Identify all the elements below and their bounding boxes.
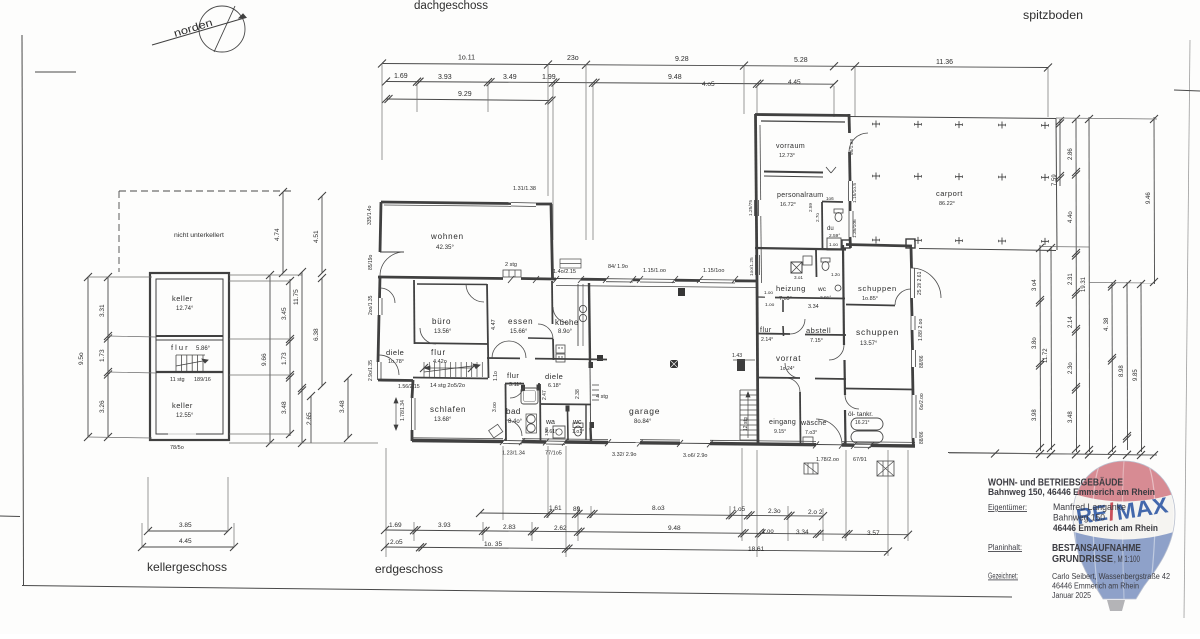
svg-text:3.31: 3.31 (99, 304, 106, 317)
stair flur 14 stg (423, 362, 425, 377)
svg-text:8.o3: 8.o3 (652, 505, 665, 512)
svg-text:du: du (827, 226, 834, 232)
svg-text:1o.11: 1o.11 (458, 55, 475, 62)
kueche sink circles (579, 305, 586, 312)
wall kueche east / garage west (589, 283, 590, 363)
svg-text:2 stg: 2 stg (505, 262, 517, 268)
oil tanks (851, 418, 883, 430)
window schuppen east 1 (910, 268, 912, 298)
svg-text:4.47: 4.47 (491, 319, 497, 330)
svg-text:wa: wa (545, 419, 555, 426)
door arc schuppen east big (911, 268, 941, 298)
svg-text:1.99: 1.99 (542, 74, 556, 81)
svg-text:bad: bad (506, 407, 521, 416)
svg-text:1.oo: 1.oo (762, 529, 774, 535)
svg-text:wohnen: wohnen (430, 232, 464, 241)
wall wohnen south / essen north (378, 277, 503, 279)
svg-text:2.59: 2.59 (808, 203, 813, 212)
svg-text:7.o3°: 7.o3° (805, 430, 817, 436)
svg-text:3.26: 3.26 (99, 400, 106, 413)
door arc essen-kueche (538, 324, 553, 339)
schlafen furniture (489, 424, 503, 438)
wall schuppen divider (846, 305, 895, 306)
svg-text:eingang: eingang (769, 419, 796, 426)
svg-text:schuppen: schuppen (858, 284, 897, 293)
svg-text:77/1o5: 77/1o5 (545, 451, 562, 457)
svg-text:BESTANSAUFNAHME: BESTANSAUFNAHME (1052, 543, 1141, 554)
svg-text:1.73: 1.73 (281, 352, 288, 365)
keller stair arrow (176, 360, 208, 366)
carport post marks (873, 123, 880, 125)
wall bad west (505, 384, 508, 441)
svg-text:9.66: 9.66 (261, 353, 268, 366)
svg-text:1.61: 1.61 (549, 505, 562, 512)
wall vorrat south (757, 377, 800, 380)
keller door gap (168, 433, 196, 435)
right chains bottom connector (949, 453, 1157, 455)
washer wa (553, 426, 565, 438)
svg-text:3.57: 3.57 (867, 530, 880, 537)
svg-text:1.15/1o.5: 1.15/1o.5 (852, 183, 858, 203)
svg-text:2.65: 2.65 (306, 412, 313, 425)
keller stair (175, 355, 177, 371)
wall bad east / wa west (539, 384, 542, 441)
chain 11.75 (301, 272, 303, 443)
svg-text:vorrat: vorrat (776, 354, 801, 363)
svg-text:flur: flur (507, 371, 519, 380)
svg-text:4.74: 4.74 (274, 228, 281, 241)
svg-text:2oo/1.35: 2oo/1.35 (368, 295, 374, 315)
bottom dim rowB line (385, 530, 908, 535)
wall wa/wc divider (567, 410, 570, 440)
svg-text:2.9o/1.35: 2.9o/1.35 (368, 360, 374, 381)
svg-text:8o.84°: 8o.84° (634, 419, 652, 425)
svg-text:3.45: 3.45 (281, 307, 288, 320)
flur mini dimension 4.42 (424, 367, 472, 369)
wall wohnen west (380, 202, 381, 252)
wall diele2 south / wa wc north (540, 403, 591, 406)
svg-text:13.57°: 13.57° (860, 341, 878, 347)
window 2.9o/1.35 west (377, 362, 379, 380)
window 1.15/1.oo b (700, 279, 735, 281)
stair arrow garage-wing (747, 392, 749, 438)
svg-text:189/16: 189/16 (194, 377, 211, 383)
svg-text:1.o5: 1.o5 (733, 506, 746, 513)
svg-text:heizung: heizung (776, 284, 806, 293)
svg-text:88/86: 88/86 (919, 431, 925, 444)
north compass cross line (214, 6, 235, 52)
svg-text:1o.78°: 1o.78° (388, 359, 404, 365)
inner face line kueche-row north wall (556, 286, 757, 288)
svg-text:1.oo: 1.oo (765, 302, 775, 308)
svg-text:1.23/1.34: 1.23/1.34 (502, 451, 525, 457)
heizung boiler K (791, 262, 802, 273)
svg-text:1.78/1.34: 1.78/1.34 (400, 400, 406, 421)
wall buero east (487, 284, 489, 378)
window boundary ticks north wall (508, 276, 514, 283)
svg-text:6.38: 6.38 (313, 328, 320, 341)
wall personalraum south / heizung north (755, 248, 846, 250)
svg-text:1.73: 1.73 (99, 349, 106, 362)
svg-text:84/ 1.9o: 84/ 1.9o (608, 264, 628, 270)
svg-text:3.oo: 3.oo (492, 402, 498, 412)
svg-text:Eigentümer:: Eigentümer: (988, 502, 1027, 512)
svg-text:4.42o: 4.42o (433, 359, 447, 365)
door posts diele2-garage (589, 362, 594, 368)
svg-text:11 stg: 11 stg (170, 377, 185, 383)
svg-text:1.oo: 1.oo (829, 242, 838, 247)
door arc schuppen1 (895, 289, 911, 305)
door 95/1.98 wing east (849, 133, 868, 152)
wall corridor south / schlafen north (413, 378, 488, 379)
wall essen/kueche divider (551, 281, 554, 324)
svg-text:essen: essen (508, 317, 533, 326)
page border left (22, 35, 24, 585)
svg-text:1o.85°: 1o.85° (862, 296, 878, 302)
svg-text:küche: küche (555, 318, 579, 327)
door arc vorrat (785, 363, 800, 378)
svg-text:67/91: 67/91 (853, 457, 867, 463)
black marker diele2 NE (597, 355, 603, 361)
keller bottom extension lines (147, 477, 149, 531)
window schuppen east 4 (911, 395, 913, 438)
svg-text:kellergeschoss: kellergeschoss (147, 560, 227, 574)
door mark V vorraum (826, 167, 831, 173)
door post wa (566, 406, 570, 412)
svg-text:89: 89 (573, 506, 581, 513)
svg-text:85/19o: 85/19o (368, 254, 374, 270)
measure arrow 1.78/1.34 (395, 398, 397, 430)
right chain 8.98 (1126, 282, 1129, 450)
svg-text:12.73°: 12.73° (779, 153, 795, 159)
svg-text:2.7o: 2.7o (815, 213, 820, 222)
wall wing north (755, 115, 850, 116)
svg-text:flur: flur (431, 348, 446, 357)
svg-text:8.98: 8.98 (1119, 365, 1125, 377)
chain 2.65 (298, 439, 306, 447)
svg-text:1.1o: 1.1o (493, 371, 499, 381)
keller chain right segments 3.45/1.73/3.48 (289, 279, 291, 436)
svg-text:abstell: abstell (806, 326, 831, 335)
steps 4 stg (592, 384, 599, 386)
exterior steps symbol b (877, 461, 894, 476)
svg-text:3.o6/ 2.9o: 3.o6/ 2.9o (683, 453, 707, 459)
bottom dim rowC line (385, 547, 888, 552)
garage pillar (670, 360, 678, 368)
chain 3.48 west of plan (347, 378, 349, 438)
inner face line south wall (412, 437, 503, 440)
window schuppen east 3 (911, 350, 913, 367)
svg-text:78/5o: 78/5o (170, 445, 184, 451)
wall buero south (414, 343, 488, 344)
svg-text:wäsche: wäsche (800, 420, 827, 427)
svg-text:5.28: 5.28 (794, 57, 808, 64)
svg-text:GRUNDRISSE: GRUNDRISSE (1052, 554, 1113, 565)
door arcs interior west house (420, 328, 436, 344)
window 1.23/1.34 (503, 440, 522, 442)
wall buero north inner (417, 283, 487, 286)
title block top rule (948, 453, 1157, 456)
svg-text:nicht unterkellert: nicht unterkellert (174, 232, 224, 239)
stair arrow flur (424, 365, 480, 372)
keller outer wall (150, 273, 229, 440)
svg-text:9.46: 9.46 (1146, 192, 1152, 204)
svg-text:keller: keller (172, 294, 193, 303)
bottom dim rowA line (480, 513, 823, 516)
svg-text:1.78/2.oo: 1.78/2.oo (816, 457, 839, 463)
right chain 3.o4 3.8o 3.98 (1039, 245, 1042, 451)
right chain 9.85 (1140, 282, 1143, 452)
svg-text:4.51: 4.51 (313, 230, 320, 243)
window 1.31/1.38 wohnen north (511, 202, 536, 205)
wall buero west (413, 280, 416, 344)
keller chain total 9.50 (87, 277, 89, 437)
svg-text:3.48: 3.48 (339, 400, 346, 413)
svg-text:14 stg 2o5/2o: 14 stg 2o5/2o (430, 383, 465, 389)
page tick top-right (1174, 90, 1200, 91)
svg-text:18.61: 18.61 (748, 546, 765, 553)
page tick left-edge (0, 515, 20, 518)
svg-text:Gezeichnet:: Gezeichnet: (988, 572, 1018, 581)
svg-text:diele: diele (545, 372, 563, 381)
svg-text:3.48: 3.48 (1068, 411, 1074, 423)
top dim extension lines (381, 63, 383, 160)
du wc toilet (834, 209, 843, 213)
svg-text:88/86: 88/86 (919, 355, 925, 368)
svg-text:3.93: 3.93 (438, 74, 452, 81)
page border bottom (22, 586, 1012, 598)
page tick top-left (35, 71, 76, 73)
black shaft at garage north wall (678, 288, 685, 296)
wall schuppen2 south (846, 389, 913, 390)
svg-text:1.15/1.oo: 1.15/1.oo (643, 268, 666, 274)
svg-text:3.85: 3.85 (179, 522, 192, 529)
svg-text:9.29: 9.29 (458, 91, 472, 98)
window 77/1o5 (546, 440, 565, 442)
svg-text:4.4o: 4.4o (1068, 211, 1074, 223)
svg-text:6o/2.oo: 6o/2.oo (919, 393, 925, 410)
svg-text:4. 38: 4. 38 (1104, 317, 1110, 331)
svg-text:86.22°: 86.22° (939, 201, 955, 207)
svg-text:19.31: 19.31 (1081, 276, 1087, 292)
svg-text:1.oo: 1.oo (764, 290, 773, 295)
wall kueche south partial (528, 337, 553, 340)
svg-text:2.31: 2.31 (1068, 273, 1074, 285)
svg-text:3.93: 3.93 (438, 522, 451, 529)
wall wc east (585, 404, 587, 440)
remax balloon watermark (1068, 456, 1180, 611)
svg-text:16.72°: 16.72° (780, 202, 796, 208)
svg-text:Bahnweg 150, 46446 Emmerich am: Bahnweg 150, 46446 Emmerich am Rhein (988, 487, 1155, 497)
svg-text:11.72: 11.72 (1043, 348, 1049, 363)
chain 4.74 (282, 192, 284, 273)
svg-text:7.15°: 7.15° (810, 338, 823, 344)
inner face line wing west wall (759, 125, 762, 200)
svg-text:3.8o: 3.8o (1032, 337, 1038, 349)
svg-text:, M 1:100: , M 1:100 (1114, 554, 1140, 564)
exterior stoop at kueche door (560, 259, 581, 268)
wall flur-mid south / bad north (505, 383, 524, 385)
svg-text:Planinhalt:: Planinhalt: (988, 542, 1022, 552)
svg-text:1.69: 1.69 (394, 73, 408, 80)
top dim row1 line (382, 64, 1048, 68)
dashed outline not-basemented (119, 190, 292, 192)
svg-text:3 o4: 3 o4 (1032, 279, 1038, 291)
door arc essen double (509, 341, 526, 358)
window schuppen east 2 (910, 316, 912, 330)
svg-text:Carlo Seibert, Wassenbergstraß: Carlo Seibert, Wassenbergstraße 42 (1052, 572, 1170, 581)
svg-text:3.o1: 3.o1 (794, 275, 803, 280)
chimney at garage east (737, 359, 745, 371)
window 1.15/1.oo a (640, 278, 675, 280)
wall essen south / diele2 north (487, 357, 520, 359)
svg-text:9.5o: 9.5o (78, 352, 85, 365)
right chain 9.46 (1153, 117, 1156, 284)
wall wohnen north (381, 202, 511, 204)
svg-text:wc: wc (572, 419, 582, 426)
wall wohnen east (551, 204, 553, 278)
wall eingang/waesche divider (799, 392, 802, 444)
wall wing/schuppen divider (843, 245, 844, 345)
svg-text:3.11°: 3.11° (509, 382, 522, 388)
bottom rowC ticks (381, 543, 389, 551)
svg-text:13.68°: 13.68° (434, 417, 452, 423)
right chain 7.59 2.86 (1059, 119, 1061, 186)
svg-text:1.35/1o6: 1.35/1o6 (852, 219, 858, 238)
bad tub (521, 388, 538, 404)
svg-text:spitzboden: spitzboden (1023, 10, 1083, 22)
svg-text:9.15°: 9.15° (774, 429, 786, 435)
svg-text:diele: diele (386, 348, 404, 357)
wc toilet (573, 423, 583, 428)
svg-text:1o. 35: 1o. 35 (484, 541, 502, 548)
svg-text:23o: 23o (567, 55, 579, 62)
right chains top connector (1056, 118, 1157, 119)
svg-text:2.47: 2.47 (542, 390, 548, 400)
window 1.35/1o6 wing east (848, 211, 850, 237)
heizung wc sink (835, 285, 841, 291)
svg-text:12.55°: 12.55° (176, 413, 194, 419)
svg-text:2.86: 2.86 (1068, 148, 1074, 160)
wall wing west lower (757, 283, 758, 445)
bottom extension lines (385, 448, 387, 557)
svg-text:schuppen: schuppen (856, 327, 899, 337)
svg-text:1.15/1oo: 1.15/1oo (703, 268, 724, 274)
svg-text:2.14: 2.14 (1068, 316, 1074, 328)
svg-text:Bahnweg 150: Bahnweg 150 (1053, 513, 1105, 523)
carport north edge (850, 117, 1056, 119)
wall west jog to schlafen (378, 379, 413, 382)
top dim row2 line (386, 82, 834, 85)
carport south edge (919, 249, 1056, 251)
svg-text:1.69: 1.69 (389, 522, 402, 529)
svg-text:1.25/75: 1.25/75 (748, 200, 754, 216)
heizung wc cell wall (815, 250, 818, 277)
svg-text:8.4o°: 8.4o° (508, 419, 523, 425)
svg-text:9.28: 9.28 (675, 56, 689, 63)
right chain 19.31 (1088, 117, 1091, 452)
top dim row1 ticks (378, 60, 386, 68)
carport east edge (1056, 119, 1057, 251)
north compass needle (152, 18, 246, 46)
door arcs wing east col (829, 345, 859, 409)
svg-text:1.56/2.15: 1.56/2.15 (398, 384, 420, 390)
keller chain right 9.66 (269, 275, 271, 443)
keller bottom chain 3.85 (148, 530, 228, 532)
wall flur/abstell divider wing (782, 300, 784, 312)
svg-text:dachgeschoss: dachgeschoss (414, 0, 488, 12)
svg-text:erdgeschoss: erdgeschoss (375, 562, 443, 576)
window boundary ticks south wall (500, 438, 506, 445)
window 1.oo/1.25 wing west (755, 255, 757, 275)
svg-text:11.75: 11.75 (293, 289, 300, 305)
svg-text:schlafen: schlafen (430, 405, 466, 414)
door arc wohnen west (380, 251, 404, 253)
window 1.15/1o.5 wing east (848, 181, 850, 201)
waesche fixtures (803, 437, 813, 444)
svg-text:4.45: 4.45 (179, 538, 192, 545)
svg-text:9.48: 9.48 (668, 74, 682, 81)
window 2oo/1.35 west (378, 298, 380, 315)
keller wall divider keller/flur (156, 335, 223, 337)
keller chain left segments (107, 277, 109, 437)
svg-text:3.48: 3.48 (281, 401, 288, 414)
steps 2 stg at wohnen south (503, 270, 521, 277)
pillar schuppen NW (842, 240, 850, 248)
svg-text:Januar 2025: Januar 2025 (1052, 591, 1091, 600)
svg-text:3.34: 3.34 (796, 529, 809, 536)
door posts bad (521, 385, 525, 391)
chain 4.51 (321, 196, 323, 273)
top dim row3 line 9.29 (386, 99, 549, 101)
svg-text:9.48: 9.48 (668, 525, 681, 532)
svg-text:4 stg: 4 stg (596, 394, 608, 400)
wall schuppen north (846, 245, 912, 247)
window 1.78/1.34 schlafen west (411, 398, 413, 430)
heizung wc toilet (821, 258, 830, 262)
svg-text:6.18°: 6.18° (548, 383, 561, 389)
svg-text:vorraum: vorraum (776, 143, 805, 150)
door arc abstell (790, 319, 805, 334)
north compass circle (199, 6, 245, 52)
keller right extension lines (229, 274, 302, 276)
wall wing east upper (848, 114, 851, 133)
svg-text:11.36: 11.36 (936, 59, 953, 66)
bad sinks (527, 415, 535, 423)
wall vorraum/personalraum divider (764, 172, 823, 173)
top dim row2 ticks (382, 78, 390, 86)
svg-text:2.o5: 2.o5 (390, 539, 403, 546)
door arc eingang north (786, 378, 800, 392)
svg-text:2.3o: 2.3o (1068, 362, 1074, 374)
svg-text:2.83: 2.83 (503, 524, 516, 531)
svg-text:3.98: 3.98 (1032, 409, 1038, 421)
svg-text:15.66°: 15.66° (510, 329, 528, 335)
door 1.4o/2.15 exterior (556, 278, 581, 280)
svg-text:1.65: 1.65 (544, 427, 549, 436)
keller extension lines left (88, 276, 152, 278)
entry door 1.78/2.oo (816, 444, 842, 446)
window 1.25/75 wing west (754, 200, 756, 216)
svg-text:carport: carport (936, 189, 963, 198)
svg-text:öl- tankr.: öl- tankr. (848, 411, 873, 418)
keller bottom chain 4.45 (142, 546, 234, 548)
svg-text:1.88/ 2.oo: 1.88/ 2.oo (918, 319, 924, 341)
svg-text:12.74°: 12.74° (176, 306, 194, 312)
window 67/91 (854, 443, 871, 445)
du shower 1.oo (827, 238, 841, 250)
svg-text:8.9o°: 8.9o° (558, 329, 573, 335)
